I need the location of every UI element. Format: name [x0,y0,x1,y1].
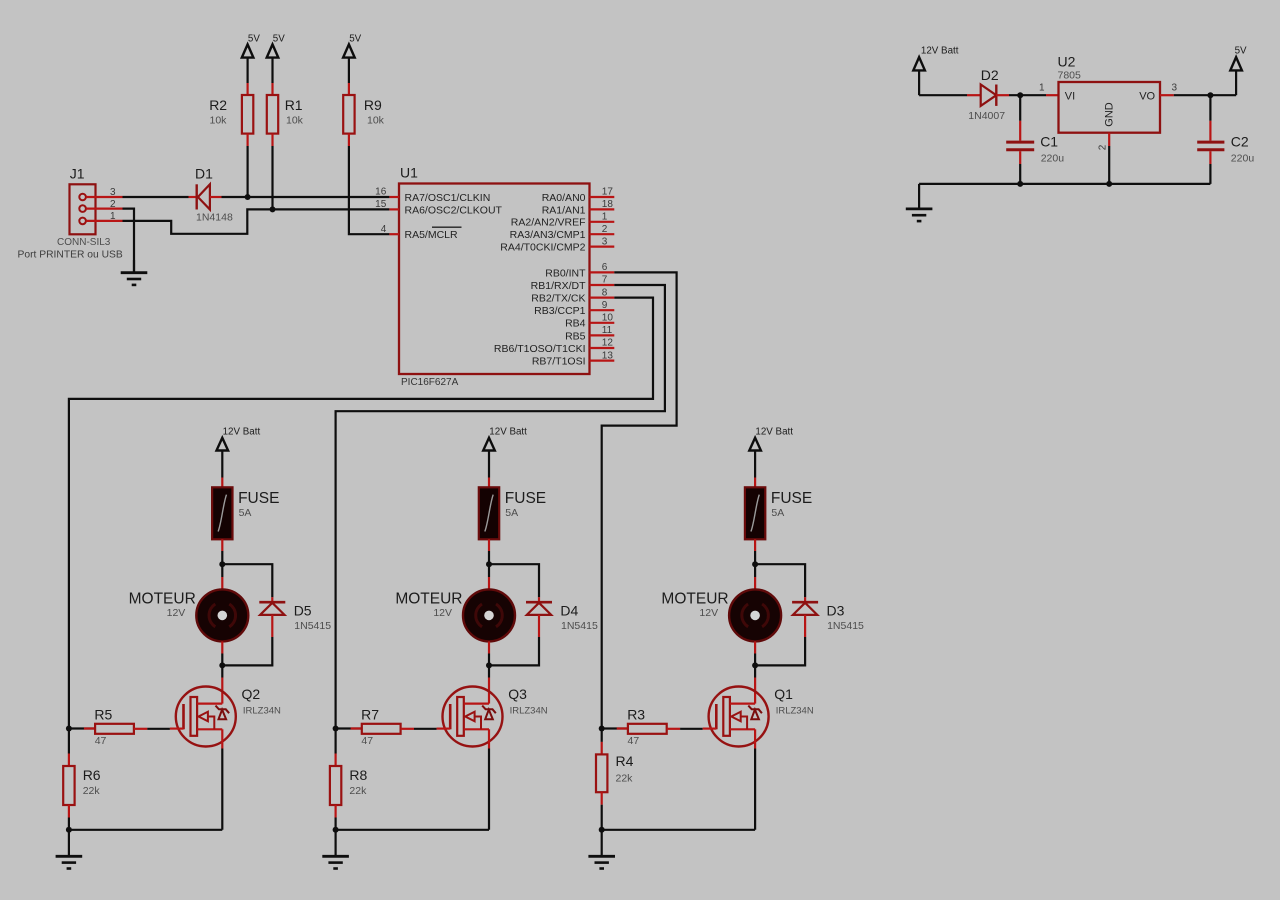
svg-text:RA0/AN0: RA0/AN0 [542,192,586,204]
diode D3 label [827,602,865,632]
power 5V arrow for R2 [242,33,261,83]
svg-text:1N4007: 1N4007 [968,110,1005,122]
resistor R6 label [83,767,101,797]
svg-text:1N5415: 1N5415 [294,620,331,632]
svg-text:MOTEUR: MOTEUR [395,590,462,607]
capacitor C1 label [1040,133,1058,149]
J1 pin number 1 [110,211,116,222]
U1 pin 9 RB3/CCP1 [534,300,614,317]
junction source/pulldown/ground [599,827,605,833]
U1 pin 11 RB5 [565,325,614,342]
svg-text:1N4148: 1N4148 [196,212,233,224]
svg-text:3: 3 [1172,83,1178,94]
capacitor C2 value [1231,153,1255,165]
junction fuse/motor/diode [486,561,492,567]
junction rail/R3 [599,726,605,732]
svg-text:RB2/TX/CK: RB2/TX/CK [531,293,585,305]
svg-text:C1: C1 [1040,133,1058,149]
diode D2 label [981,67,999,83]
junction pin15/R1 [270,206,276,212]
junction source/pulldown/ground [333,827,339,833]
wire U2 VO to 5V [1160,70,1236,95]
resistor R7 label [361,706,379,747]
U1 pin 7 RB1/RX/DT [531,275,615,292]
U1 pin 12 RB6/T1OSO/T1CKI [494,338,614,355]
transistor Q3 IRLZ34N [443,665,503,829]
J1 pin number 2 [110,199,116,210]
svg-text:1N5415: 1N5415 [827,620,864,632]
transistor Q3 label [508,686,548,717]
motor MOTEUR 12V (Q1 section) [729,564,781,665]
svg-text:RB5: RB5 [565,330,586,342]
resistor R8 22k [330,729,341,830]
svg-text:J1: J1 [70,166,85,182]
junction motor/drain/diode [752,662,758,668]
svg-text:PIC16F627A: PIC16F627A [401,377,459,388]
svg-text:RA7/OSC1/CLKIN: RA7/OSC1/CLKIN [405,192,491,204]
svg-text:10k: 10k [367,114,385,126]
fuse FUSE 5A (Q3 section) [479,478,499,565]
svg-text:15: 15 [375,199,387,210]
motor MOTEUR 12V (Q3 section) [463,564,515,665]
svg-text:5A: 5A [771,507,784,519]
ground (Q2 section) [56,830,83,869]
wire D1 to U1 pin16 [222,196,390,198]
resistor R3 label [627,706,645,747]
wire J1 pin3 to D1 [123,196,189,198]
svg-text:5A: 5A [239,507,252,519]
svg-text:RB0/INT: RB0/INT [545,267,586,279]
fuse label (Q3 section) [505,490,546,519]
svg-text:47: 47 [361,735,373,747]
svg-text:12V Batt: 12V Batt [489,426,527,437]
svg-text:U2: U2 [1058,54,1076,70]
svg-text:220u: 220u [1041,153,1065,165]
capacitor C2 220u [1197,142,1224,184]
svg-text:5V: 5V [273,33,285,44]
ground for J1 pin 2 [121,260,148,285]
svg-text:3: 3 [110,187,116,198]
wire 12V to D2 [919,94,967,96]
supply ground bus wire [919,183,1210,185]
svg-text:C2: C2 [1231,133,1249,149]
svg-text:16: 16 [375,187,387,198]
IC U1 part number [401,377,459,388]
motor MOTEUR 12V (Q2 section) [196,564,248,665]
svg-text:D5: D5 [294,602,312,618]
regulator U2 value 7805 [1058,70,1082,82]
svg-text:47: 47 [95,735,107,747]
svg-text:R9: R9 [364,97,382,113]
junction C1/ground bus [1017,181,1023,187]
motor label (Q2 section) [129,590,196,619]
wire motor top tap to flyback diode [755,564,805,597]
junction rail/R5 [66,726,72,732]
resistor R9 10k [343,83,384,146]
svg-text:MOTEUR: MOTEUR [129,590,196,607]
svg-text:7: 7 [602,275,608,286]
connector J1 CONN-SIL3 body [70,184,123,234]
svg-text:22k: 22k [83,785,101,797]
power 5V arrow (supply out) [1230,45,1247,70]
svg-text:5V: 5V [248,33,260,44]
diode D5 label [294,602,332,632]
wire J1 pin1 jog [123,209,390,233]
svg-text:Q1: Q1 [774,686,793,702]
IC U1 body box [399,184,590,375]
U1 pin 15 RA6/OSC2/CLKOUT [375,199,502,216]
svg-text:RA5/MCLR: RA5/MCLR [405,229,459,241]
svg-text:IRLZ34N: IRLZ34N [243,706,281,717]
svg-text:10: 10 [602,313,614,324]
transistor Q1 IRLZ34N [709,665,769,829]
resistor R6 22k [63,729,74,830]
junction VO/C2 [1207,92,1213,98]
wire R9 bottom to pin4 net [349,146,390,234]
U2 GND pin wire [1108,133,1110,184]
svg-text:VO: VO [1139,91,1155,103]
ground (Q1 section) [588,830,615,869]
capacitor C1 220u [1006,142,1034,184]
svg-text:IRLZ34N: IRLZ34N [776,706,814,717]
resistor R1 10k [267,83,304,146]
svg-text:10k: 10k [286,114,304,126]
svg-text:2: 2 [602,224,608,235]
svg-text:12V: 12V [699,607,718,619]
svg-text:5V: 5V [349,33,361,44]
capacitor C2 wire top [1209,95,1211,140]
svg-text:1: 1 [602,212,608,223]
diode D2 1N4007 [967,85,1009,106]
motor label (Q3 section) [395,590,462,619]
svg-text:R3: R3 [627,706,645,722]
svg-text:RB1/RX/DT: RB1/RX/DT [531,280,586,292]
svg-text:R4: R4 [616,753,634,769]
ground (Q3 section) [322,830,349,869]
svg-text:R7: R7 [361,706,379,722]
U1 pin 4 RA5/MCLR [381,224,462,241]
resistor R3 47 [602,724,717,734]
wire MOSFET source to ground rail [336,829,489,831]
svg-text:RA2/AN2/VREF: RA2/AN2/VREF [511,217,586,229]
U1 pin 1 RA2/AN2/VREF [511,212,615,229]
U1 pin 18 RA1/AN1 [542,199,615,216]
svg-text:13: 13 [602,350,614,361]
diode D4 label [560,602,598,632]
U2 pin number 1 [1039,83,1045,94]
junction motor/drain/diode [219,662,225,668]
svg-text:12V Batt: 12V Batt [223,426,261,437]
resistor R4 label [616,753,634,785]
wire MOSFET source to ground rail [69,829,222,831]
power 12V Batt arrow (Q2 section) [217,426,261,477]
svg-text:22k: 22k [616,773,634,785]
junction fuse/motor/diode [219,561,225,567]
svg-text:1: 1 [110,211,116,222]
junction D2/C1 [1017,92,1023,98]
wire RB2 to Q2 gate rail [69,298,653,729]
fuse label (Q1 section) [771,490,812,519]
J1 note Port PRINTER ou USB [18,250,123,261]
svg-text:RA6/OSC2/CLKOUT: RA6/OSC2/CLKOUT [405,204,503,216]
diode D1 1N4148 [189,184,222,209]
svg-text:FUSE: FUSE [238,490,279,507]
power 5V arrow for R1 [267,33,286,83]
power 12V Batt arrow (Q1 section) [749,426,793,477]
wire MOSFET source to ground rail [602,829,755,831]
resistor R5 47 [69,724,184,734]
svg-text:CONN-SIL3: CONN-SIL3 [57,237,111,248]
svg-text:7805: 7805 [1058,70,1082,82]
U1 pin 8 RB2/TX/CK [531,287,614,304]
svg-text:22k: 22k [349,785,367,797]
svg-text:4: 4 [381,224,387,235]
J1 value CONN-SIL3 [57,237,111,248]
resistor R8 label [349,767,367,797]
capacitor C1 value [1041,153,1065,165]
wire RB0 to Q1 gate rail [602,272,677,728]
svg-text:10k: 10k [210,114,228,126]
U1 pin 17 RA0/AN0 [542,187,615,204]
svg-text:VI: VI [1065,91,1075,103]
svg-text:R1: R1 [285,97,303,113]
fuse FUSE 5A (Q2 section) [212,478,232,565]
svg-text:Q3: Q3 [508,686,527,702]
resistor R2 10k [209,83,253,146]
svg-text:D1: D1 [195,165,213,181]
U1 pin 6 RB0/INT [545,262,614,279]
junction pin16/R2 [245,194,251,200]
svg-text:12: 12 [602,338,614,349]
svg-text:1N5415: 1N5415 [561,620,598,632]
diode D3 1N5415 [755,597,818,665]
svg-text:R5: R5 [94,706,112,722]
svg-text:RB7/T1OSI: RB7/T1OSI [532,356,586,368]
resistor R7 47 [336,724,451,734]
svg-text:FUSE: FUSE [505,490,546,507]
transistor Q2 IRLZ34N [176,665,236,829]
svg-text:220u: 220u [1231,153,1255,165]
svg-text:RA1/AN1: RA1/AN1 [542,204,586,216]
wire D2 to U2 VI [1009,94,1059,96]
U1 pin 3 RA4/T0CKI/CMP2 [500,236,614,253]
svg-text:R6: R6 [83,767,101,783]
J1 pin number 3 [110,187,116,198]
resistor R4 22k [596,729,607,830]
U1 pin 16 RA7/OSC1/CLKIN [375,187,490,204]
U1 pin 10 RB4 [565,313,614,330]
diode D2 value [968,110,1005,122]
U2 pin number 3 [1172,83,1178,94]
wire motor top tap to flyback diode [222,564,272,597]
IC U1 label [400,165,418,181]
diode D4 1N5415 [489,597,552,665]
svg-text:GND: GND [1104,102,1116,127]
svg-text:RB6/T1OSO/T1CKI: RB6/T1OSO/T1CKI [494,343,586,355]
svg-text:3: 3 [602,236,608,247]
junction rail/R7 [333,726,339,732]
resistor R5 label [94,706,112,747]
svg-text:17: 17 [602,187,614,198]
svg-text:R8: R8 [349,767,367,783]
junction U2 GND/ground bus [1106,181,1112,187]
svg-text:5V: 5V [1235,45,1247,56]
svg-text:12V: 12V [167,607,186,619]
svg-text:FUSE: FUSE [771,490,812,507]
svg-text:D2: D2 [981,67,999,83]
diode D1 label [195,165,213,181]
svg-text:2: 2 [110,199,116,210]
junction source/pulldown/ground [66,827,72,833]
motor label (Q1 section) [661,590,728,619]
svg-text:11: 11 [602,325,613,336]
wire J1 pin2 to ground [123,209,135,273]
svg-text:IRLZ34N: IRLZ34N [510,706,548,717]
svg-text:D4: D4 [560,602,578,618]
capacitor C1 wire top [1019,95,1021,140]
power 5V arrow for R9 [343,33,362,83]
svg-text:8: 8 [602,287,608,298]
regulator U2 label [1058,54,1076,70]
svg-text:1: 1 [1039,83,1045,94]
U1 pin 13 RB7/T1OSI [532,350,614,367]
svg-text:47: 47 [628,735,640,747]
wire R1 bottom to pin15 net [271,146,273,209]
svg-text:9: 9 [602,300,608,311]
svg-text:Port PRINTER ou USB: Port PRINTER ou USB [18,250,123,261]
junction motor/drain/diode [486,662,492,668]
svg-text:D3: D3 [827,602,845,618]
svg-text:RA4/T0CKI/CMP2: RA4/T0CKI/CMP2 [500,242,585,254]
power 12V Batt arrow (supply) [913,45,958,95]
svg-text:Q2: Q2 [242,686,261,702]
U1 pin 2 RA3/AN3/CMP1 [510,224,615,241]
svg-text:RB4: RB4 [565,318,586,330]
transistor Q2 label [242,686,282,717]
regulator U2 7805 body [1059,82,1161,133]
svg-text:12V: 12V [433,607,452,619]
svg-text:RB3/CCP1: RB3/CCP1 [534,305,586,317]
wire RB1 to Q3 gate rail [336,285,665,729]
capacitor C2 label [1231,133,1249,149]
svg-text:5A: 5A [505,507,518,519]
U2 pin number 2 (rotated) [1098,144,1109,150]
transistor Q1 label [774,686,814,717]
svg-text:12V Batt: 12V Batt [755,426,793,437]
ground (supply) [906,184,933,221]
svg-text:R2: R2 [209,97,227,113]
svg-text:12V Batt: 12V Batt [921,45,959,56]
svg-text:6: 6 [602,262,608,273]
svg-text:18: 18 [602,199,614,210]
wire R2 bottom to pin16 net [247,146,249,197]
svg-text:MOTEUR: MOTEUR [661,590,728,607]
svg-text:RA3/AN3/CMP1: RA3/AN3/CMP1 [510,229,586,241]
power 12V Batt arrow (Q3 section) [483,426,527,477]
fuse label (Q2 section) [238,490,279,519]
diode D5 1N5415 [222,597,285,665]
fuse FUSE 5A (Q1 section) [745,478,765,565]
junction fuse/motor/diode [752,561,758,567]
diode D1 value [196,212,233,224]
connector J1 label [70,166,85,182]
svg-text:2: 2 [1098,144,1109,150]
svg-text:U1: U1 [400,165,418,181]
wire motor top tap to flyback diode [489,564,539,597]
